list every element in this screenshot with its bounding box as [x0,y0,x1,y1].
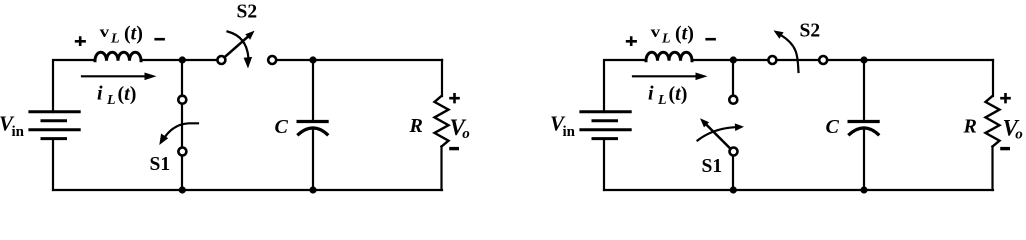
wire top corner to resistor (top-right corner) [441,59,443,61]
switch S2 blade (open, pointing up-right) [225,37,248,57]
switch S2 closing-motion arc [228,32,249,58]
switch S2 right terminal [819,56,827,64]
battery Vin [28,112,80,139]
svg-text:i: i [97,83,103,105]
label − (vL polarity) [154,38,165,41]
svg-text:S1: S1 [702,156,723,177]
switch S2 right terminal [268,56,276,64]
resistor R zigzag [435,96,449,147]
wire bottom rail [53,189,442,191]
svg-text:(t): (t) [675,23,694,45]
wire right rail top [992,60,994,96]
svg-text:S1: S1 [150,154,171,175]
label − (vL polarity) [705,38,716,41]
svg-text:S2: S2 [800,21,821,42]
current arrow iL [82,75,146,77]
svg-text:o: o [1015,126,1023,142]
switch S2 motion arrowhead (down) [244,57,253,69]
svg-text:L: L [110,32,120,47]
wire left rail top (battery to top wire) [604,60,646,112]
node junction (S1 bottom) [730,186,737,193]
switch S2 left terminal [768,56,776,64]
svg-text:(t): (t) [669,83,688,105]
svg-text:C: C [826,116,840,138]
node junction (inductor / S1 branch) [730,56,737,63]
label + (vL polarity) [75,36,86,46]
svg-text:v: v [651,24,661,41]
wire right rail top [441,60,443,96]
label − (Vo polarity) [449,147,459,150]
svg-text:L: L [106,93,116,108]
label + (Vo polarity) [449,93,460,103]
capacitor C top plate [848,120,880,123]
switch S1 lower terminal [730,148,738,156]
svg-text:R: R [963,116,977,138]
capacitor C bottom plate (curved) [297,128,328,135]
label − (Vo polarity) [1000,147,1010,150]
switch S1 motion arrowhead (right) [735,123,744,131]
node junction (capacitor top) [860,56,867,63]
switch S1 lower terminal [178,148,186,156]
svg-text:(t): (t) [118,83,137,105]
battery Vin [579,112,631,139]
wire capacitor branch top [863,60,865,120]
node junction (S1 bottom) [179,186,186,193]
switch S1 opening-motion arc [165,123,199,137]
svg-text:R: R [409,115,423,137]
capacitor C bottom plate (curved) [848,128,879,135]
wire capacitor branch bottom [863,129,865,191]
wire top (S2 right terminal to right rail) [278,59,443,61]
inductor L [95,52,141,61]
switch S2 blade arrowhead [245,31,254,40]
svg-text:L: L [657,93,667,108]
switch S1 upper terminal [178,96,186,104]
switch S2 opening-motion arc (pivot tail below wire) [782,36,799,73]
svg-text:C: C [275,116,289,138]
svg-text:o: o [462,126,470,142]
wire right rail bottom [991,147,993,191]
wire bottom rail [604,189,993,191]
node junction (capacitor top) [309,56,316,63]
wire left rail bottom [603,139,605,190]
wire left rail top (battery to top wire) [53,60,95,112]
svg-text:v: v [100,24,110,41]
label + (Vo polarity) [1000,93,1011,103]
resistor R zigzag [986,96,1000,147]
switch S1 closing-motion arc [698,127,736,140]
inductor L [646,52,692,61]
wire S1 branch (vertical, closed switch) [181,60,183,190]
svg-text:in: in [563,124,576,140]
svg-text:in: in [12,124,25,140]
wire capacitor branch bottom [312,129,314,191]
current arrow iL [633,75,697,77]
wire top (inductor to S2 left terminal) [141,59,216,61]
node junction (inductor / S1 branch) [179,56,186,63]
wire right rail bottom [440,147,442,191]
switch S1 blade arrowhead [700,118,709,127]
node junction (capacitor bottom) [309,186,316,193]
node junction (capacitor bottom) [860,186,867,193]
capacitor C top plate [297,120,329,123]
svg-text:S2: S2 [237,1,258,22]
svg-text:L: L [661,32,671,47]
label + (vL polarity) [626,36,637,46]
switch S1 blade (open, pointing up-left) [707,125,731,149]
wire top (inductor through closed S2 to right rail) [692,59,993,61]
wire S1 branch upper (node to open switch) [732,60,734,96]
svg-text:(t): (t) [124,23,143,45]
switch S1 motion arrowhead (down-left) [159,134,168,146]
wire left rail bottom [52,139,54,190]
switch S2 left terminal [217,56,225,64]
wire S1 branch lower [732,157,734,190]
switch S1 upper terminal [729,96,737,104]
switch S2 motion arrowhead (up-left) [774,30,784,38]
svg-text:i: i [648,83,654,105]
wire capacitor branch top [312,60,314,120]
